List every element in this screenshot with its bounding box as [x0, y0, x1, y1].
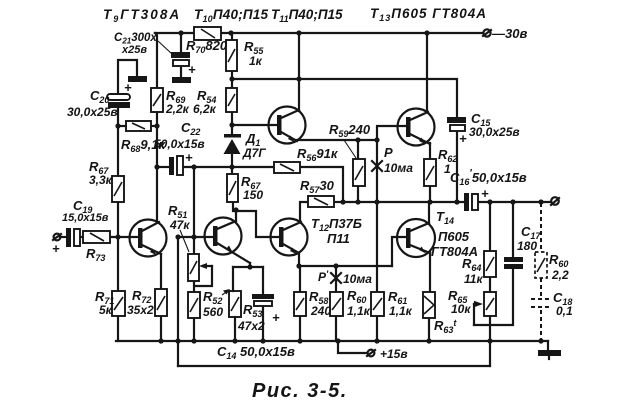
plus15v terminal — [367, 350, 375, 357]
wire R55 bottom to R54 top through y79 node — [231, 71, 233, 88]
wire R55 top — [231, 33, 233, 40]
svg-text:47х2: 47х2 — [237, 319, 265, 333]
capacitor C18 0.1 dashed — [531, 299, 550, 307]
ground bar under C21 — [172, 77, 191, 83]
minus30v terminal — [483, 29, 491, 36]
svg-text:0,1: 0,1 — [556, 304, 573, 318]
wire R73 to T9 base — [110, 236, 139, 238]
svg-text:Р: Р — [384, 145, 393, 160]
svg-text:560: 560 — [203, 305, 223, 319]
svg-text:+: + — [52, 241, 60, 256]
wire output rail y202 left part — [343, 201, 464, 203]
wire R72 bottom to ground rail — [160, 316, 162, 341]
wire T10 collector to top rail — [298, 33, 300, 111]
resistor R64 11k — [484, 251, 496, 277]
wire C19 to R73 — [80, 236, 83, 238]
dashed zobel C18 to ground rail — [540, 310, 542, 340]
wire R62 bottom to output rail — [429, 186, 431, 202]
wire C20 ground hook — [118, 60, 137, 94]
wire T12 emitter node down — [298, 253, 300, 266]
resistor R57 30 — [308, 196, 334, 207]
transistor T9 GT308A — [130, 220, 167, 257]
capacitor C16p 50.0x15v — [464, 193, 478, 211]
wire R68 left to x118 column — [118, 125, 126, 127]
wire R51 top column — [193, 167, 195, 254]
pointer R51 — [180, 230, 189, 252]
wire T13 collector to top rail — [426, 33, 428, 110]
svg-text:+: + — [459, 131, 467, 146]
wire C15 bottom down to output rail — [456, 131, 458, 202]
wire T12 collector up to R57 — [300, 202, 308, 221]
wire T14 collector to output rail — [428, 202, 430, 222]
wire y167 C22 to R56 — [184, 166, 274, 168]
wire R56 right end then down to output rail — [300, 167, 343, 202]
wire ground rail drop to chassis — [547, 341, 549, 350]
wire C21 to ground — [180, 66, 182, 77]
resistor R58 240 — [294, 292, 306, 316]
resistor R71 5k — [112, 291, 125, 316]
wire R64 to R65 — [489, 277, 491, 292]
svg-text:2,2к: 2,2к — [165, 102, 190, 116]
wire R58 column — [299, 266, 301, 292]
svg-text:15,0х15в: 15,0х15в — [62, 212, 109, 224]
svg-text:10ма: 10ма — [384, 161, 413, 175]
wire R51 wiper loop — [195, 266, 212, 286]
svg-text:5к: 5к — [99, 303, 113, 317]
resistor R53 47x2 — [229, 291, 241, 317]
wire R59 top — [357, 140, 359, 159]
resistor R62 1 — [424, 159, 436, 186]
svg-text:Рис. 3-5.: Рис. 3-5. — [252, 380, 348, 402]
wire R60 column with meter break — [335, 266, 337, 292]
resistor R51 47k trimmer — [188, 254, 199, 281]
svg-text:—30в: —30в — [491, 26, 527, 41]
wire C17 top to output rail — [512, 202, 514, 258]
wire y266 emitter bus — [299, 265, 392, 267]
capacitor C20 30.0x25v — [107, 94, 130, 108]
ground bar near C20 — [128, 76, 147, 82]
resistor R59 240 — [353, 159, 365, 186]
wire ground rail y341 — [116, 340, 548, 342]
svg-text:50,0х15в: 50,0х15в — [154, 137, 205, 151]
wire T11 emitter junction to C14 — [233, 266, 263, 268]
svg-text:х25в: х25в — [121, 44, 147, 56]
input terminal — [53, 234, 61, 241]
svg-text:Д7Г: Д7Г — [242, 146, 266, 160]
svg-text:11к: 11к — [464, 272, 483, 286]
resistor R72 35x2 — [155, 289, 167, 316]
svg-text:1,1к: 1,1к — [347, 304, 371, 318]
svg-text:+: + — [185, 150, 193, 165]
svg-text:2,2: 2,2 — [551, 268, 569, 282]
wire R65 bottom through ground rail to feedback rail — [489, 316, 491, 366]
svg-text:П11: П11 — [327, 231, 350, 246]
pointer R59 — [344, 140, 356, 158]
meter cross P2 — [331, 273, 341, 283]
svg-text:10ма: 10ма — [343, 272, 372, 286]
wire T9 emitter down to R72 — [160, 254, 162, 289]
svg-text:10к: 10к — [451, 302, 471, 316]
svg-text:+15в: +15в — [380, 347, 408, 361]
wire bootstrap y79 from R54/R55 node to C15 column — [232, 79, 457, 118]
svg-text:R5691к: R5691к — [297, 146, 339, 163]
wire T10 base from diode node — [232, 124, 278, 126]
resistor R55 1k — [226, 40, 237, 71]
wire R54 bottom to diode node y125 — [231, 112, 233, 135]
svg-text:150: 150 — [243, 188, 263, 202]
resistor R65 10k pot — [484, 292, 496, 316]
wire lower feedback rail y366 — [178, 365, 490, 367]
meter cross P — [372, 161, 382, 171]
wire R61 bottom to ground rail — [376, 316, 378, 341]
wire top -30V rail — [155, 32, 483, 34]
wire T11 base to feedback column x178 — [178, 236, 213, 238]
svg-text:30,0х25в: 30,0х25в — [67, 105, 118, 119]
wire rail x157 from top rail down to R69 — [155, 33, 157, 88]
diode D1 D7G — [224, 134, 242, 154]
ground bar chassis right — [538, 350, 561, 356]
svg-text:R70820: R70820 — [186, 38, 228, 55]
dashed zobel R60 to C18 — [540, 278, 542, 296]
svg-text:+: + — [272, 310, 280, 325]
wire T14 emitter to R63 — [429, 252, 431, 292]
svg-text:3,3к: 3,3к — [89, 173, 113, 187]
resistor R56 91k — [274, 162, 300, 173]
capacitor C15 30.0x25v — [447, 117, 466, 131]
wire C21 branch from top rail — [180, 33, 182, 52]
resistor R60b 2.2 dashed — [535, 252, 547, 278]
svg-text:240: 240 — [310, 304, 331, 318]
wire R63 bottom to ground rail — [428, 318, 430, 341]
wire x157 rail R69 bottom to T9 collector — [156, 112, 158, 221]
wire T13 emitter to R62 — [429, 143, 431, 159]
wire R57 right to output rail node — [334, 201, 343, 203]
resistor R73 — [83, 231, 110, 243]
capacitor C19 15.0x15v — [66, 228, 80, 247]
transistor T11 — [205, 218, 251, 268]
output terminal — [551, 197, 559, 205]
wire diode bottom to y167 wire — [231, 154, 233, 174]
svg-text:+: + — [124, 80, 132, 95]
svg-text:+: + — [481, 186, 489, 201]
capacitor C17 180 — [504, 257, 523, 269]
svg-text:1к: 1к — [249, 54, 263, 68]
svg-text:47к: 47к — [169, 218, 190, 232]
svg-text:6,2к: 6,2к — [193, 102, 217, 116]
resistor R61 1.1k — [371, 292, 384, 316]
wire R67-150 bottom jog to T12 base — [233, 202, 280, 237]
wire T14 base hook — [392, 237, 406, 266]
wire x118 column C20 to R67 — [117, 107, 119, 176]
wire R71 bottom to ground rail — [117, 316, 119, 341]
svg-text:1,1к: 1,1к — [389, 304, 413, 318]
svg-text:R59240: R59240 — [329, 122, 371, 139]
wire R53 column — [233, 267, 235, 341]
wire x377 column base node down to output rail — [376, 140, 378, 202]
wire T11 collector up to R67-150 jog — [235, 210, 237, 220]
wire feedback column x178 down to lower rail — [177, 237, 179, 366]
transistor T12 — [271, 219, 308, 256]
wire +15V tap — [338, 341, 367, 353]
wire R68 right to x157 rail — [151, 125, 157, 127]
capacitor C22 50.0x15v — [169, 156, 183, 175]
resistor R60 1.1k — [330, 292, 343, 316]
svg-text:180: 180 — [517, 239, 537, 253]
wire input terminal to C19 — [60, 236, 66, 238]
wire wiper bus to C17 bottom — [474, 268, 513, 325]
pointer C21 — [158, 41, 172, 54]
resistor R54 6.2k — [226, 88, 237, 112]
capacitor C21 300x25v — [171, 52, 190, 66]
wire R64 column from output rail — [489, 202, 491, 251]
wire R51 bottom to R52 top — [193, 281, 195, 292]
resistor R68 9.1k — [126, 121, 151, 131]
wire C14 column — [262, 267, 264, 341]
resistor R69 2.2k — [151, 88, 163, 112]
dashed zobel branch from output rail — [540, 203, 542, 252]
svg-text:+: + — [188, 62, 196, 77]
wire x377 output rail to R61 — [376, 202, 378, 292]
wire R59 bottom to output rail — [357, 186, 359, 202]
wire T13 base line from T10 emitter — [296, 126, 407, 140]
resistor R52 560 — [188, 292, 200, 318]
wire R65 wiper arm — [473, 304, 475, 325]
wire R67 bottom to T9 base node — [117, 202, 119, 291]
wiper arrow into R51 — [203, 265, 212, 267]
resistor R70 820 — [194, 27, 221, 40]
svg-text:35х2: 35х2 — [127, 303, 154, 317]
capacitor C14 50.0x15v — [252, 294, 274, 306]
resistor R67b 150 — [227, 174, 238, 202]
svg-text:30,0х25в: 30,0х25в — [469, 125, 520, 139]
wire R52 bottom to ground rail — [193, 318, 195, 341]
arrow into R53 — [222, 289, 230, 295]
wire output rail y202 right part to terminal — [479, 201, 551, 203]
transistor T13 — [398, 109, 435, 146]
transistor T10 — [269, 107, 306, 144]
resistor R63 thermo — [423, 292, 435, 318]
svg-text:П605: П605 — [438, 229, 470, 244]
plus signs — [52, 62, 489, 325]
resistor R67 3.3k — [112, 176, 124, 202]
transistor T14 — [397, 219, 435, 257]
wire y167 from x157 rail to C22 — [157, 166, 169, 168]
